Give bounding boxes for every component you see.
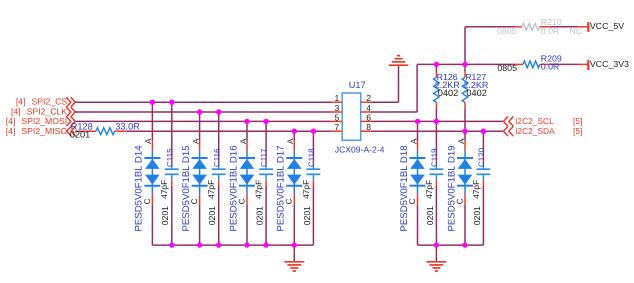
diode D17 pin C stub	[293, 194, 295, 205]
wire net tap down to diode D19	[464, 131, 466, 140]
svg-text:NC: NC	[570, 26, 583, 36]
wire net tap down to capacitor C120	[482, 131, 484, 156]
wire R209 to VCC_3V3 symbol	[550, 63, 578, 65]
wire net tap down to capacitor C116	[218, 112, 220, 156]
resistor R128 right pin stub	[115, 130, 127, 132]
TVS diode D14 PESD5V0F1BL	[144, 151, 160, 194]
svg-text:2: 2	[366, 93, 371, 103]
wire C117 to ground rail	[265, 186, 267, 245]
wire net tap down to diode D18	[417, 121, 419, 140]
wire net SPI2_MISO	[127, 130, 331, 132]
wire C119 to ground rail	[435, 186, 437, 245]
resistor R127 2.2KR body	[462, 77, 468, 102]
svg-text:6: 6	[366, 112, 371, 122]
svg-text:0201: 0201	[302, 206, 312, 225]
wire R127 to net	[464, 108, 466, 131]
TVS diode D18 PESD5V0F1BL	[410, 151, 426, 194]
resistor R126 bottom pin stub	[435, 102, 437, 108]
svg-text:5: 5	[335, 112, 340, 122]
power symbol VCC_3V3	[587, 60, 589, 70]
svg-text:I2C2_SDA: I2C2_SDA	[515, 126, 555, 136]
capacitor C117 top pin stub	[265, 156, 267, 162]
svg-text:[4]: [4]	[11, 106, 21, 116]
wire D15 to ground rail	[199, 205, 201, 245]
svg-text:VCC_3V3: VCC_3V3	[590, 59, 629, 69]
diode D18 pin A stub	[417, 141, 419, 151]
capacitor C119 top pin stub	[435, 156, 437, 162]
svg-text:C116: C116	[212, 148, 221, 167]
svg-text:SPI2_MOSI: SPI2_MOSI	[21, 116, 67, 126]
wire net I2C2_SCL (U17 pin 6)	[372, 120, 504, 122]
svg-text:A: A	[191, 138, 200, 144]
svg-text:SPI2_CLK: SPI2_CLK	[27, 106, 68, 116]
U17 pin 3 stub	[331, 111, 343, 113]
wire R126 to net	[435, 108, 437, 121]
svg-text:47pF: 47pF	[159, 180, 169, 199]
node junction 2	[169, 100, 174, 105]
svg-text:47pF: 47pF	[254, 180, 264, 199]
wire net tap down to diode D16	[246, 121, 248, 140]
capacitor C115 47pF	[165, 163, 179, 181]
U17 pin 8 stub	[361, 130, 372, 132]
wire C116 to ground rail	[218, 186, 220, 245]
diode D16 pin A stub	[246, 141, 248, 151]
resistor R210 0.0R NC body (gray)	[522, 23, 540, 30]
svg-text:A: A	[144, 138, 153, 144]
node junction 15	[169, 242, 174, 247]
wire ground rail (right group)	[418, 244, 484, 246]
wire vertical pin4 to VCC_3V3 rail	[416, 64, 418, 112]
wire net I2C2_SDA (U17 pin 8)	[372, 130, 504, 132]
wire D19 to ground rail	[464, 205, 466, 245]
node junction 17	[216, 242, 221, 247]
svg-text:7: 7	[335, 122, 340, 132]
diode D17 pin A stub	[293, 141, 295, 151]
svg-text:JCX09-A-2-4: JCX09-A-2-4	[335, 144, 385, 154]
wire VCC_3V3 rail	[417, 63, 515, 65]
node junction 13	[462, 129, 467, 134]
svg-text:PESD5V0F1BL D18: PESD5V0F1BL D18	[399, 145, 410, 231]
resistor R209 right pin stub	[540, 63, 551, 65]
U17 pin 2 stub	[361, 101, 372, 103]
svg-text:C: C	[190, 198, 199, 204]
capacitor C118 47pF	[307, 163, 321, 181]
node junction 9	[434, 62, 439, 67]
wire net tap down to diode D14	[151, 102, 153, 140]
svg-text:A: A	[457, 138, 466, 144]
resistor R128 left pin stub	[75, 130, 96, 132]
wire U17 pin 4 to VCC rail	[372, 111, 418, 113]
wire R210 to VCC_5V symbol	[550, 26, 578, 28]
resistor R209 left pin stub	[515, 63, 523, 65]
diode D18 pin C stub	[417, 194, 419, 205]
svg-text:PESD5V0F1BL D16: PESD5V0F1BL D16	[228, 145, 239, 231]
wire net tap down to capacitor C119	[435, 121, 437, 156]
port symbol SPI2_CLK	[66, 107, 70, 117]
diode D15 pin C stub	[199, 194, 201, 205]
diode D19 pin A stub	[464, 141, 466, 151]
ground (top, near U17 pin2)	[389, 56, 408, 66]
svg-text:PESD5V0F1BL D19: PESD5V0F1BL D19	[446, 145, 457, 231]
wire D18 to ground rail	[417, 205, 419, 245]
capacitor C118 top pin stub	[312, 156, 314, 162]
svg-text:C: C	[237, 198, 246, 204]
svg-text:C: C	[408, 198, 417, 204]
resistor R210 left pin stub	[515, 26, 523, 28]
wire net tap down to capacitor C117	[265, 121, 267, 156]
svg-text:A: A	[239, 138, 248, 144]
capacitor C120 top pin stub	[482, 156, 484, 162]
diode D14 pin A stub	[151, 141, 153, 151]
wire rail to R126	[435, 64, 437, 71]
wire net SPI2_CLK	[75, 111, 330, 113]
diode D16 pin C stub	[246, 194, 248, 205]
resistor R128 33.0R body	[96, 128, 115, 135]
svg-text:C117: C117	[260, 148, 269, 167]
op-amp U17 body (JCX09-A-2-4)	[342, 93, 361, 140]
wire U17 pin 2 to ground	[372, 101, 399, 103]
svg-text:[5]: [5]	[573, 126, 582, 136]
wire D14 to ground rail	[151, 205, 153, 245]
resistor R126 2.2KR body	[434, 77, 440, 102]
svg-text:SPI2_MISO: SPI2_MISO	[21, 126, 67, 136]
wire VCC_5V branch vertical	[464, 27, 466, 65]
node junction 19	[263, 242, 268, 247]
svg-text:1: 1	[335, 93, 340, 103]
resistor R210 right pin stub	[540, 26, 551, 28]
wire D16 to ground rail	[246, 205, 248, 245]
svg-text:SPI2_CS: SPI2_CS	[31, 96, 67, 106]
node junction 11	[415, 119, 420, 124]
diode D19 pin C stub	[464, 194, 466, 205]
node junction 3	[197, 109, 202, 114]
capacitor C115 bottom pin stub	[171, 181, 173, 186]
diode D14 pin C stub	[151, 194, 153, 205]
svg-text:0201: 0201	[160, 206, 170, 225]
node junction 7	[292, 129, 297, 134]
svg-text:C115: C115	[165, 148, 174, 167]
wire stem to left ground	[293, 245, 295, 261]
U17 pin 6 stub	[361, 120, 372, 122]
svg-text:[4]: [4]	[6, 126, 16, 136]
svg-text:C120: C120	[477, 147, 486, 167]
ground (left group)	[284, 262, 304, 271]
TVS diode D17 PESD5V0F1BL	[286, 151, 302, 194]
port symbol SPI2_MOSI	[66, 117, 70, 127]
svg-text:PESD5V0F1BL D17: PESD5V0F1BL D17	[276, 145, 287, 231]
node junction 1	[150, 100, 155, 105]
resistor R209 0.0R body	[523, 61, 540, 68]
node junction 12	[434, 119, 439, 124]
node junction 16	[197, 242, 202, 247]
svg-text:A: A	[286, 138, 295, 144]
svg-text:0402: 0402	[438, 88, 458, 98]
capacitor C115 top pin stub	[171, 156, 173, 162]
svg-text:VCC_5V: VCC_5V	[590, 21, 624, 31]
TVS diode D15 PESD5V0F1BL	[192, 151, 208, 194]
TVS diode D19 PESD5V0F1BL	[457, 151, 473, 194]
port symbol I2C2_SCL	[504, 117, 508, 127]
capacitor C119 47pF	[430, 163, 444, 181]
resistor R126 top pin stub	[435, 72, 437, 78]
svg-text:8: 8	[366, 122, 371, 132]
capacitor C117 bottom pin stub	[265, 181, 267, 186]
svg-text:[5]: [5]	[573, 116, 582, 126]
svg-text:C: C	[143, 198, 152, 204]
node junction 10	[462, 62, 467, 67]
capacitor C117 47pF	[259, 163, 273, 181]
svg-text:C118: C118	[307, 148, 316, 167]
wire rail to R127	[464, 64, 466, 71]
svg-text:C: C	[455, 198, 464, 204]
node junction 22	[462, 242, 467, 247]
node junction 5	[244, 119, 249, 124]
svg-text:47pF: 47pF	[301, 180, 311, 199]
port symbol I2C2_SDA	[504, 126, 508, 136]
svg-text:33.0R: 33.0R	[115, 122, 140, 132]
wire net SPI2_CS	[75, 101, 330, 103]
svg-text:U17: U17	[349, 80, 366, 90]
svg-text:[4]: [4]	[6, 116, 16, 126]
wire net tap down to diode D17	[293, 131, 295, 140]
capacitor C116 47pF	[212, 163, 226, 181]
svg-text:0201: 0201	[207, 206, 217, 225]
svg-text:47pF: 47pF	[206, 180, 216, 199]
wire net tap down to diode D15	[199, 112, 201, 141]
wire VCC_5V horizontal to R210	[465, 26, 515, 28]
capacitor C116 bottom pin stub	[218, 181, 220, 186]
wire net SPI2_MOSI	[75, 120, 330, 122]
ground (right group)	[426, 262, 446, 271]
svg-text:0.0R: 0.0R	[541, 62, 560, 72]
svg-text:47pF: 47pF	[471, 180, 481, 199]
wire vertical to top ground	[398, 65, 400, 102]
svg-text:C119: C119	[430, 148, 439, 167]
wire net tap down to capacitor C115	[171, 102, 173, 156]
svg-text:0805: 0805	[497, 63, 517, 73]
svg-text:C: C	[285, 198, 294, 204]
diode D15 pin A stub	[199, 141, 201, 151]
svg-text:0201: 0201	[255, 206, 265, 225]
wire C115 to ground rail	[171, 186, 173, 245]
svg-text:PESD5V0F1BL D14: PESD5V0F1BL D14	[134, 145, 145, 232]
svg-text:PESD5V0F1BL D15: PESD5V0F1BL D15	[181, 145, 192, 231]
capacitor C120 47pF	[477, 163, 491, 181]
capacitor C120 bottom pin stub	[482, 181, 484, 186]
capacitor C119 bottom pin stub	[435, 181, 437, 186]
wire net tap down to capacitor C118	[312, 131, 314, 156]
svg-text:0.0R: 0.0R	[541, 26, 560, 36]
svg-text:0201: 0201	[425, 206, 435, 225]
U17 pin 7 stub	[331, 130, 343, 132]
power symbol VCC_5V	[587, 22, 589, 32]
U17 pin 1 stub	[331, 101, 343, 103]
svg-text:0201: 0201	[472, 206, 482, 225]
port symbol SPI2_CS	[66, 97, 70, 107]
node junction 4	[216, 109, 221, 114]
resistor R127 bottom pin stub	[464, 102, 466, 108]
wire D17 to ground rail	[293, 205, 295, 245]
svg-text:[4]: [4]	[16, 96, 26, 106]
svg-text:0805: 0805	[497, 26, 517, 36]
wire C118 to ground rail	[312, 186, 314, 245]
node junction 21	[434, 242, 439, 247]
svg-text:A: A	[409, 138, 418, 144]
svg-text:0201: 0201	[70, 130, 90, 140]
node junction 20	[292, 242, 297, 247]
capacitor C116 top pin stub	[218, 156, 220, 162]
port symbol SPI2_MISO	[67, 126, 71, 136]
node junction 18	[244, 242, 249, 247]
svg-text:I2C2_SCL: I2C2_SCL	[515, 116, 554, 126]
U17 pin 4 stub	[361, 111, 372, 113]
wire C120 to ground rail	[482, 186, 484, 245]
wire stem to right ground	[435, 245, 437, 261]
node junction 8	[311, 129, 316, 134]
wire ground rail (left group)	[152, 244, 313, 246]
U17 pin 5 stub	[331, 120, 343, 122]
node junction 14	[481, 129, 486, 134]
resistor R127 top pin stub	[464, 72, 466, 78]
node junction 6	[263, 119, 268, 124]
svg-text:47pF: 47pF	[424, 180, 434, 199]
TVS diode D16 PESD5V0F1BL	[239, 151, 255, 194]
svg-text:0402: 0402	[466, 88, 486, 98]
capacitor C118 bottom pin stub	[312, 181, 314, 186]
